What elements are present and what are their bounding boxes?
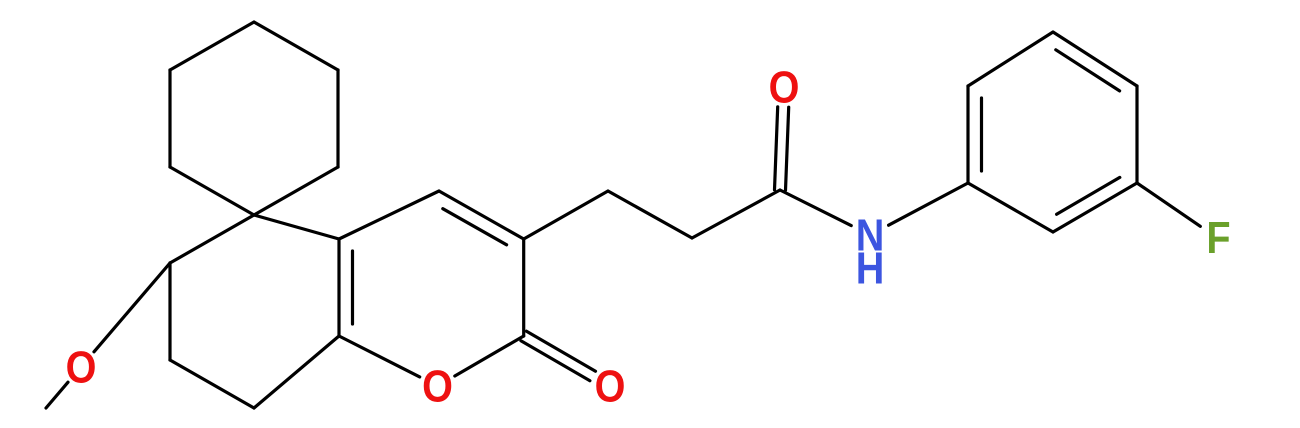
wire bond O1-C2 (455, 336, 524, 376)
svg-text:O: O (422, 361, 453, 412)
wire bond R5-F (1137, 183, 1200, 226)
svg-text:F: F (1206, 212, 1230, 263)
wire bond I-J (170, 360, 254, 408)
double bond C4a-C8a (337, 239, 340, 336)
wire bond R6-R1 (968, 183, 1053, 232)
double bond Cam-Oam (775, 107, 778, 190)
svg-text:O: O (769, 62, 800, 113)
wire bond D-E (170, 167, 254, 215)
wire bond B-C (336, 70, 339, 167)
double bond R3-R4 (1053, 32, 1137, 86)
wire bond R4-R5 (1135, 86, 1138, 183)
wire bond C2-C3 (522, 239, 525, 336)
wire bond C3-P (524, 191, 608, 239)
svg-text:H: H (856, 243, 885, 294)
wire bond Cam-N (780, 190, 851, 226)
wire bond N-R1 (889, 183, 968, 225)
wire bond Oleft-Me (46, 382, 68, 408)
wire bond A-B (254, 22, 338, 70)
svg-text:O: O (595, 361, 626, 412)
wire bond C-D (254, 167, 338, 215)
wire bond Oleft-K (94, 263, 170, 352)
wire bond J-K (168, 263, 171, 360)
double bond C3-C4 (439, 191, 524, 239)
wire bond Q-Cam (692, 190, 780, 238)
double bond R1-R2 (966, 86, 969, 183)
double bond C2-Olact (527, 331, 596, 371)
wire bond C8a-I (254, 336, 339, 408)
double bond R5-R6 (1053, 183, 1137, 232)
wire bond C8a-O1 (339, 336, 420, 377)
svg-text:O: O (66, 342, 97, 393)
wire bond F6-A (170, 22, 254, 70)
wire bond D-C4a (254, 215, 339, 239)
wire bond E-F6 (168, 70, 171, 167)
wire bond R2-R3 (968, 32, 1053, 86)
wire bond K-D (170, 215, 254, 263)
wire bond P-Q (608, 191, 692, 238)
wire bond C4a-C4 (339, 191, 439, 239)
